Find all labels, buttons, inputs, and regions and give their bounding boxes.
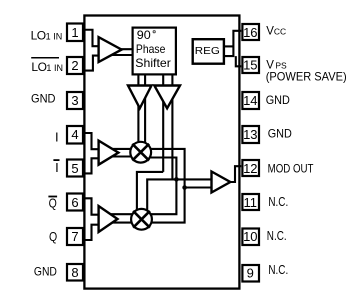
wire LO buffer out pair to phase shifter xyxy=(108,48,133,50)
op-amp U3 phase 90 buffer (down) xyxy=(154,86,180,109)
svg-text:8: 8 xyxy=(71,265,78,280)
svg-text:N.C.: N.C. xyxy=(268,195,288,209)
wire summing amp output to pin 12 xyxy=(228,166,241,182)
svg-text:4: 4 xyxy=(71,127,78,142)
op-amp U6 output summing amp xyxy=(212,172,231,193)
svg-text:REG: REG xyxy=(195,45,220,57)
pin 5 box xyxy=(67,160,83,177)
svg-text:I: I xyxy=(55,160,59,175)
svg-text:3: 3 xyxy=(71,93,78,108)
svg-text:Phase: Phase xyxy=(136,42,166,56)
svg-text:MOD OUT: MOD OUT xyxy=(268,161,314,175)
wire pin6 to Q buffer upper input xyxy=(84,198,101,214)
regulator REG box xyxy=(193,39,224,64)
svg-text:VCC: VCC xyxy=(266,25,286,37)
svg-text:7: 7 xyxy=(71,229,78,244)
wire phase shifter left output pair down to mixer M1 xyxy=(137,75,139,143)
svg-text:2: 2 xyxy=(71,58,78,73)
svg-text:15: 15 xyxy=(243,58,257,73)
mixer M2 (Q) xyxy=(131,209,152,230)
pin 10 box xyxy=(242,229,259,246)
wire REG middle stub xyxy=(225,45,233,47)
svg-text:11: 11 xyxy=(244,195,258,210)
wire I pair lower through mixer M1 to summing node V176 xyxy=(108,155,141,157)
wire pin1 to LO buffer upper input xyxy=(84,30,101,46)
pin 2 box xyxy=(67,57,83,74)
pin 7 box xyxy=(67,228,83,245)
svg-text:6: 6 xyxy=(71,195,78,210)
pin 13 box xyxy=(242,126,259,143)
op-amp U1 LO input buffer xyxy=(99,37,122,62)
pin 4 box xyxy=(67,126,83,144)
wire pin4 to I buffer upper input xyxy=(84,133,101,149)
op-amp U4 I input buffer xyxy=(99,141,119,165)
pin 8 box xyxy=(67,264,83,281)
svg-text:GND: GND xyxy=(34,264,57,278)
mixer M1 (I) xyxy=(130,142,151,163)
pin 9 box xyxy=(242,265,259,282)
pin 16 box xyxy=(242,24,259,40)
svg-text:I: I xyxy=(55,130,59,145)
wire Q buffer out pair to mixer M2 xyxy=(108,213,150,215)
node summing junction 1 xyxy=(174,177,179,182)
op-amp U2 phase 0 buffer (down) xyxy=(128,86,152,109)
wire pin15 riser xyxy=(236,56,242,66)
svg-text:N.C.: N.C. xyxy=(268,263,288,277)
IC body xyxy=(84,16,239,289)
op-amp U5 Q input buffer xyxy=(99,206,118,232)
wire pin5 to I buffer lower input xyxy=(84,158,101,173)
pin 12 box xyxy=(242,160,259,176)
svg-text:GND: GND xyxy=(266,93,290,107)
wire L2 to summing amp input 1 xyxy=(147,179,211,210)
svg-text:9: 9 xyxy=(247,266,254,281)
svg-text:N.C.: N.C. xyxy=(267,229,287,243)
svg-text:LO1IN: LO1IN xyxy=(31,60,63,74)
svg-text:LO1IN: LO1IN xyxy=(31,28,63,42)
wire L1 right pair left line to lower mixer M2 top-left xyxy=(137,172,163,211)
pin 15 box xyxy=(242,57,259,73)
svg-text:Q: Q xyxy=(49,230,57,244)
svg-text:GND: GND xyxy=(31,91,56,105)
wire summing amp input 2 xyxy=(185,186,212,188)
svg-text:GND: GND xyxy=(268,127,292,141)
svg-text:1: 1 xyxy=(71,25,78,40)
node summing junction 2 xyxy=(182,185,187,190)
svg-text:(POWER SAVE): (POWER SAVE) xyxy=(266,69,347,83)
svg-text:Shifter: Shifter xyxy=(135,56,171,70)
pin 14 box xyxy=(242,92,259,109)
wire phase shifter right output pair down xyxy=(162,75,164,172)
wire pin2 to LO buffer lower input xyxy=(84,56,101,71)
svg-text:16: 16 xyxy=(243,25,257,40)
svg-text:13: 13 xyxy=(243,127,257,142)
pin 11 box xyxy=(242,194,259,210)
pin 1 box xyxy=(67,24,83,42)
svg-text:90: 90 xyxy=(137,28,151,42)
svg-text:14: 14 xyxy=(243,93,257,108)
90 deg phase shifter box xyxy=(133,28,176,75)
svg-text:5: 5 xyxy=(71,161,78,176)
pin 6 box xyxy=(67,194,83,211)
svg-text:Q: Q xyxy=(49,197,57,211)
wire pin7 to Q buffer lower input xyxy=(84,225,101,240)
svg-text:12: 12 xyxy=(243,161,257,176)
pin 3 box xyxy=(67,92,83,109)
wire pin16 to REG (bar + lower stub) xyxy=(225,31,241,56)
wire I pair upper through mixer M1 to summing node V184 xyxy=(108,149,185,223)
svg-text:10: 10 xyxy=(243,229,257,244)
